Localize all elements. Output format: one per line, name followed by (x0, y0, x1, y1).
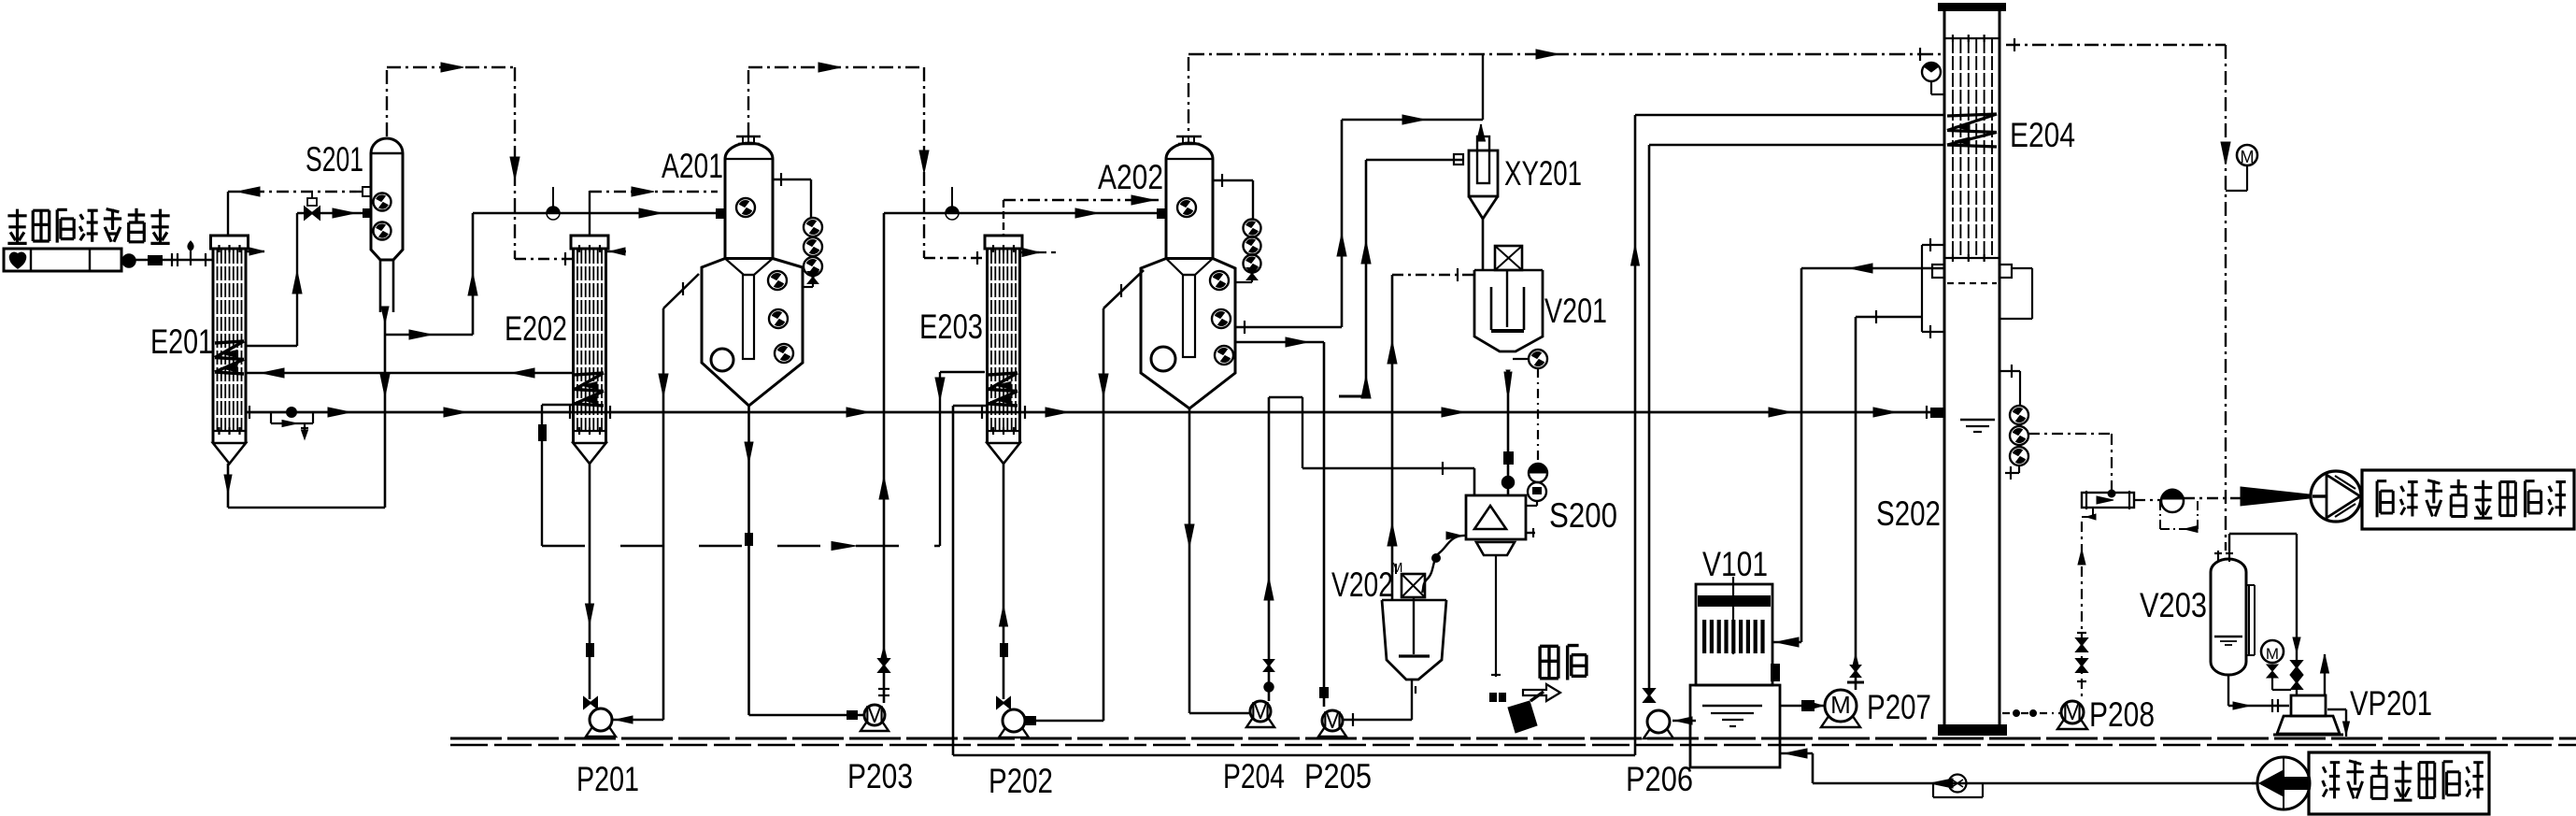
heat exchanger E202 shell (571, 236, 608, 249)
dashed liquor transfer line (542, 545, 940, 548)
V203 external gauge (2248, 585, 2250, 655)
bottom transfer run (953, 754, 1635, 757)
main liquor line across diagram (246, 411, 1944, 414)
raw feed return line (1813, 782, 2257, 785)
E203 outlet stub arrow (1020, 251, 1039, 253)
symbol in source box (10, 252, 26, 268)
pump P204 (1246, 715, 1274, 727)
svg-text:A201: A201 (662, 147, 723, 185)
svg-text:M: M (864, 700, 885, 728)
A201 crystallizer body (702, 259, 803, 407)
E202 bottom cone (574, 443, 606, 464)
E203 bottom cone (988, 443, 1020, 464)
pump P202 (999, 724, 1029, 737)
tank V202 agitator motor (1402, 574, 1425, 597)
pipe E202 to E201 return line (246, 372, 573, 375)
pipe steam feed line to E201 (135, 259, 213, 262)
dash-dot from gauges to condensate header (2028, 433, 2112, 435)
svg-text:XY201: XY201 (1504, 154, 1582, 193)
S200 right stub (1526, 532, 1535, 534)
V202 agitator shaft (1413, 597, 1415, 654)
P203 discharge fittings (878, 659, 889, 672)
label text wu-leng-ning-ye-qu-hou-chu-li (condensate to treatment) (2376, 481, 2379, 518)
E201 bottom leg (227, 464, 230, 508)
pipe A201 slope drain downcomer (662, 308, 665, 720)
svg-text:P201: P201 (576, 760, 639, 798)
pipe dashed V202 riser to V201 (1392, 274, 1474, 276)
E204 vent instrument (1922, 63, 1941, 81)
steam header riser from P203 (883, 213, 886, 703)
E202 inlet stub arrow (606, 251, 626, 252)
A201 gauge drain valve (808, 272, 818, 283)
V201 bottom instrument (1513, 358, 1529, 360)
S200 triangle symbol (1474, 506, 1506, 529)
V203 vapour loop to VP201 suction (2229, 533, 2297, 535)
E203 vapour riser (1003, 200, 1004, 236)
A201 level gauge circles (804, 218, 822, 236)
pipe S201 overhead horizontal run (387, 66, 515, 68)
condensate header box (2082, 493, 2134, 508)
pipe cyclone underflow to V201 (1482, 219, 1485, 270)
vessel V203 shell (2211, 559, 2246, 675)
pipe branch from E201 up into S201 (296, 213, 298, 346)
separator S201 shell (371, 138, 403, 260)
E203 heating coil (989, 373, 1018, 375)
S202 right balance loop (2012, 267, 2032, 269)
S202 base pad (1938, 724, 2007, 736)
label text lv-hua-na-fei-shui-yuan-ye (NaCl raw wastewater) (2323, 766, 2326, 772)
pipe P201 side connection (612, 719, 663, 722)
condensate pump symbol (2161, 490, 2184, 512)
pipe dash-dot A201 overhead riser (747, 70, 749, 140)
dash-dot header to ejector (2134, 499, 2161, 501)
svg-text:E204: E204 (2010, 116, 2075, 154)
pipe A202 bottom to P204 (1188, 408, 1191, 713)
pipe A202 slope drain downcomer (1103, 308, 1105, 721)
P206 suction from V101 (1672, 720, 1696, 723)
outfall box (2362, 470, 2574, 529)
VP201 vent to atmosphere (2324, 667, 2326, 695)
recovery block arrow (1523, 684, 1560, 701)
P207 discharge riser to S202 (1855, 317, 1857, 690)
long vertical liquor line to E204 (952, 406, 955, 755)
svg-text:M: M (1322, 706, 1343, 734)
S201 neck (379, 260, 382, 312)
riser from P204 to cyclone line (1365, 160, 1368, 396)
V202 outlet to P205 (1411, 680, 1413, 720)
pipe S201 bottom to E202 steam riser (385, 334, 473, 336)
pipe dash-dot E201 top to S201 (228, 191, 363, 193)
V101 liquid level symbol (1702, 705, 1762, 707)
A201 sight glass on cylinder (736, 198, 755, 217)
svg-text:P202: P202 (989, 762, 1053, 800)
svg-text:S202: S202 (1876, 494, 1941, 533)
dash-dot S202 bottoms to P208 (2002, 712, 2060, 714)
S201 instrument circle lower (374, 222, 391, 240)
pipe A201 overhead horizontal run (748, 66, 924, 68)
V201 outlet to S200 (1506, 370, 1510, 374)
outfall feathered arrow (2241, 487, 2309, 506)
column S202 shell (1943, 11, 1946, 726)
A202 sight glasses on body (1210, 271, 1229, 290)
label text hui-shou (recovery) (1540, 645, 1558, 648)
svg-text:P203: P203 (847, 757, 913, 795)
pipe A201 bottom to P203 (747, 406, 750, 715)
E202 heating coil (575, 373, 604, 375)
XY201 vortex tube (1477, 136, 1489, 183)
VP201 drain to grade (2327, 709, 2346, 710)
pump P207 (1821, 711, 1860, 727)
A202 draft tube (1183, 275, 1195, 357)
svg-text:E203: E203 (919, 308, 983, 346)
V101 right side fitting (1771, 664, 1780, 681)
pipe A202 outlet down to S200 (1235, 341, 1324, 344)
E204 heating coil (1947, 114, 1997, 116)
S202 left balance loop (1922, 244, 1944, 246)
E203 tube bundle (990, 250, 992, 431)
E202 tube bundle (576, 250, 578, 431)
svg-text:P206: P206 (1626, 760, 1693, 798)
S200 solids discharge line (1495, 555, 1497, 677)
A202 manway circle (1151, 347, 1175, 371)
V203 top stubs (2217, 551, 2219, 562)
A201 top nozzle (738, 143, 760, 145)
E204 lower tube sheet dashes (1947, 282, 1997, 284)
pipe cyclone XY201 overhead riser to vapour line (1482, 54, 1484, 120)
M instrument near V203 line (2237, 145, 2257, 165)
control valve on steam header (547, 207, 560, 213)
pipe steam header to A201 (473, 212, 718, 215)
pipe A202 vapour outlet to cyclone (1235, 326, 1342, 329)
S202 liquid level symbol (1960, 419, 1995, 422)
V203 bottom outlet to VP201 (2227, 675, 2229, 706)
heat exchanger E201 shell (211, 236, 249, 249)
pump P208 (2057, 716, 2087, 729)
S201 left nozzle upper (363, 187, 371, 196)
A201 manway circle (711, 349, 733, 371)
valve on steam feed (148, 255, 163, 265)
A201 left slope feed line (663, 274, 699, 308)
evaporator A202 upper cylinder (1166, 143, 1213, 259)
evaporator A201 upper cylinder (725, 143, 773, 259)
P201 suction fitting (584, 697, 597, 708)
V203 M instrument (2261, 640, 2284, 663)
E201 heating coil (215, 341, 244, 343)
S201 bottom outlet (384, 312, 387, 335)
P207 suction from V101 (1780, 705, 1825, 708)
column S202 top cap (1938, 3, 2006, 11)
vacuum pump VP201 body (2291, 695, 2326, 716)
cyclone XY201 body (1469, 150, 1498, 196)
pipe dash-dot E203 to A202 (1003, 199, 1159, 201)
S202 level gauge circles (2010, 406, 2028, 424)
ball valve on main line (287, 408, 297, 418)
svg-text:P207: P207 (1867, 688, 1931, 726)
riser to E202/A201 steam line (472, 213, 475, 335)
valve below M instrument (2267, 665, 2278, 678)
pipe A202 overhead long run to S202 condenser (1188, 53, 1944, 55)
grade line lower (450, 744, 2576, 746)
main line sample loop (270, 412, 272, 423)
centrifuge S200 casing (1466, 495, 1526, 539)
A202 internal funnel (1166, 259, 1213, 276)
P204 discharge riser (1268, 397, 1271, 701)
S202 right nozzle flange (2000, 265, 2012, 278)
riser dashed line to E203 coil (939, 372, 941, 546)
recovery shovel symbol (1508, 701, 1537, 733)
control valve on A202 steam header (946, 207, 959, 213)
svg-text:M: M (1250, 696, 1271, 724)
V101 packing band (1698, 595, 1771, 607)
E201 tube bundle (217, 250, 219, 431)
svg-text:M: M (2241, 148, 2255, 166)
pipe E204 upper inlet (1635, 114, 1944, 117)
P202 suction fitting (997, 697, 1010, 708)
A202 sight glass on cylinder (1177, 198, 1196, 217)
P208 riser valves (2076, 638, 2086, 651)
label text lai-zi-guo-lu-sheng-zheng-qi (steam from boiler) (16, 209, 19, 244)
E202 coil outlet to dashed transfer line (542, 404, 574, 406)
svg-text:VP201: VP201 (2350, 684, 2432, 723)
A202 gauge drain valve (1247, 268, 1257, 279)
svg-text:E202: E202 (505, 309, 567, 348)
V202 shell (1382, 600, 1446, 680)
svg-text:M: M (1830, 691, 1851, 719)
drain trap on steam feed (190, 249, 192, 265)
E201 bottom cone (213, 443, 246, 464)
V203 level line (2214, 636, 2242, 637)
pipe cyclone secondary inlet (1366, 159, 1462, 161)
svg-text:P208: P208 (2089, 695, 2155, 734)
flexible hose S200 to V202 (1422, 536, 1466, 593)
E201 coil outlet line (246, 345, 297, 347)
pipe from S202 into V101 (1800, 268, 1803, 642)
outfall circle symbol (2311, 471, 2361, 522)
pipe E203 bottom to P202 (1003, 464, 1005, 699)
S201 instrument circle upper (374, 193, 391, 211)
svg-text:S200: S200 (1549, 496, 1617, 535)
A201 draft tube (743, 275, 754, 359)
V201 shell (1474, 270, 1543, 351)
S200 instrument circles (1529, 464, 1547, 482)
pipe dash-dot A202 overhead riser (1188, 57, 1189, 136)
S200 discharge cone (1476, 542, 1515, 555)
E201 vent stub arrow (246, 251, 264, 252)
dash-dot P208 discharge riser (2081, 522, 2083, 699)
svg-text:S201: S201 (306, 140, 363, 179)
tank V101 upper shell (1696, 584, 1772, 685)
dash-dot V201 instrument to S200 instruments (1537, 368, 1539, 464)
pipe drain run to E201 bottom (228, 507, 385, 509)
S202 left nozzle flange (1932, 265, 1944, 278)
valves on V201 outlet (1503, 451, 1514, 465)
pipe dash-dot E202 to A201 (590, 191, 718, 193)
pipe A201 overhead downcomer to E203 (923, 67, 925, 258)
dash-dot line S202 top to V203 (2006, 44, 2226, 46)
V101 lower basin (1690, 685, 1780, 767)
recovered solids marks (1489, 693, 1497, 702)
pipe E204 lower inlet (1649, 144, 1944, 147)
svg-text:V203: V203 (2140, 586, 2207, 624)
A202 level gauge circles (1244, 220, 1261, 237)
raw feed inlet circle symbol (2257, 757, 2310, 809)
pump P203 (861, 719, 889, 731)
svg-text:E201: E201 (150, 322, 213, 361)
A202 top nozzle (1178, 143, 1200, 145)
A201 sight glasses on body (768, 271, 787, 290)
grade line upper (450, 737, 2576, 740)
pump P201 (586, 723, 616, 737)
return line to V101 (1812, 753, 1815, 783)
svg-text:V202: V202 (1331, 565, 1393, 604)
A202 left slope feed line (1103, 270, 1144, 308)
pipe S201 drain down (384, 335, 387, 508)
A202 crystallizer body (1141, 259, 1235, 409)
pipe S201 overhead into E202 top (515, 258, 572, 260)
raw feed box (2309, 752, 2489, 814)
pipe dash-dot S201 overhead to E202: riser (386, 70, 388, 138)
riser to E204 upper inlet (1634, 115, 1637, 755)
boiler steam source box (4, 249, 121, 271)
P206 riser valve (1644, 689, 1654, 702)
heat exchanger E203 shell (985, 236, 1022, 249)
S202 right stub to gauges (2000, 370, 2020, 372)
pipe P202 side connection (1025, 720, 1103, 723)
V101 centre line (1732, 577, 1734, 654)
valve at S202 inlet (1930, 408, 1943, 418)
svg-text:M: M (2062, 697, 2083, 725)
VP201 suction valves (2291, 661, 2301, 674)
S201 left nozzle lower (363, 208, 371, 218)
pump P205 (1318, 724, 1346, 737)
A201 right instrument standpipe (773, 179, 811, 180)
svg-text:V201: V201 (1544, 292, 1607, 330)
svg-text:V101: V101 (1702, 545, 1768, 583)
return line instrument loop (1932, 783, 1934, 797)
junction dot at source box outlet (122, 254, 135, 267)
E201 top riser (227, 192, 229, 236)
svg-text:A202: A202 (1098, 158, 1163, 196)
E204 tube bundle (1952, 39, 1954, 258)
pipe S201 overhead downcomer (514, 67, 516, 259)
pipe A201 overhead into E203 top (924, 257, 985, 259)
svg-text:P204: P204 (1223, 757, 1285, 795)
A201 internal funnel (725, 259, 773, 276)
dash-dot to outfall (2184, 497, 2241, 499)
pump P206 (1644, 725, 1673, 738)
XY201 up arrow (1477, 124, 1486, 141)
A202 right instrument standpipe (1213, 179, 1253, 181)
XY201 cone (1469, 196, 1498, 219)
tank V201 agitator motor (1495, 246, 1522, 270)
svg-text:M: M (2266, 645, 2279, 663)
valve on S201 feed branch (305, 208, 320, 220)
pipe steam header to A202 (884, 212, 1159, 215)
pipe cyclone inlet top (1342, 119, 1483, 122)
V201 agitator (1490, 287, 1493, 330)
svg-text:P205: P205 (1304, 757, 1372, 795)
V101 distributor bars (1702, 620, 1706, 653)
pipe E202 bottom to P201 (589, 464, 591, 699)
pipe from raw feed symbol (2252, 782, 2258, 784)
E202 vapour riser (589, 191, 591, 236)
P206 discharge riser to E204 (1648, 145, 1651, 689)
